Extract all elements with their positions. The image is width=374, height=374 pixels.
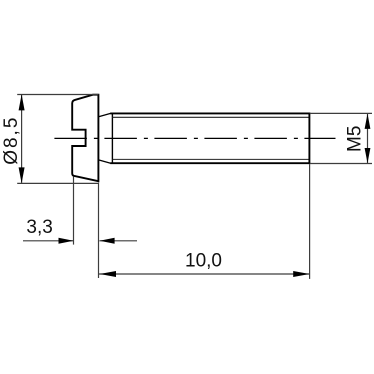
- dimension line 10,0: [99, 273, 310, 275]
- extension line under head (screw start): [98, 183, 100, 278]
- svg-text:M5: M5: [345, 126, 366, 152]
- arrowhead M5 up: [365, 114, 371, 129]
- arrowhead 10,0 right: [293, 271, 309, 277]
- extension line M5 bottom: [310, 163, 372, 165]
- dimension line M5: [367, 113, 369, 163]
- arrowhead 3,3 pointing left: [100, 238, 115, 244]
- centerline (screw axis): [54, 137, 335, 139]
- screw head outline with drive slot: [72, 95, 98, 182]
- extension line diameter bottom: [17, 182, 99, 184]
- svg-text:10,0: 10,0: [185, 250, 222, 271]
- arrowhead up: [19, 94, 25, 110]
- thread run-out diagonal top: [99, 113, 111, 116]
- extension line M5 top: [310, 112, 372, 114]
- thread minor diameter line bottom: [112, 158, 309, 160]
- thread run-out diagonal bottom: [99, 160, 111, 163]
- extension line screw end: [309, 164, 311, 279]
- thread minor diameter line top: [112, 116, 309, 118]
- dimension line 3,3 left segment: [23, 240, 74, 242]
- arrowhead 3,3 pointing right: [59, 238, 74, 244]
- thread major diameter line top: [110, 112, 310, 114]
- full-thread boundary line: [111, 113, 113, 163]
- thread major diameter line bottom: [110, 162, 310, 164]
- arrowhead 10,0 left: [100, 271, 116, 277]
- arrowhead down: [19, 167, 25, 183]
- arrowhead M5 down: [365, 148, 371, 163]
- dimension line 3,3 right segment: [99, 240, 137, 242]
- svg-text:Ø8,5: Ø8,5: [1, 116, 22, 165]
- extension line head height left: [73, 177, 75, 245]
- screw end face: [308, 113, 310, 165]
- svg-text:3,3: 3,3: [26, 217, 52, 238]
- extension line diameter top: [17, 94, 98, 96]
- dimension line diameter 8,5: [21, 95, 23, 183]
